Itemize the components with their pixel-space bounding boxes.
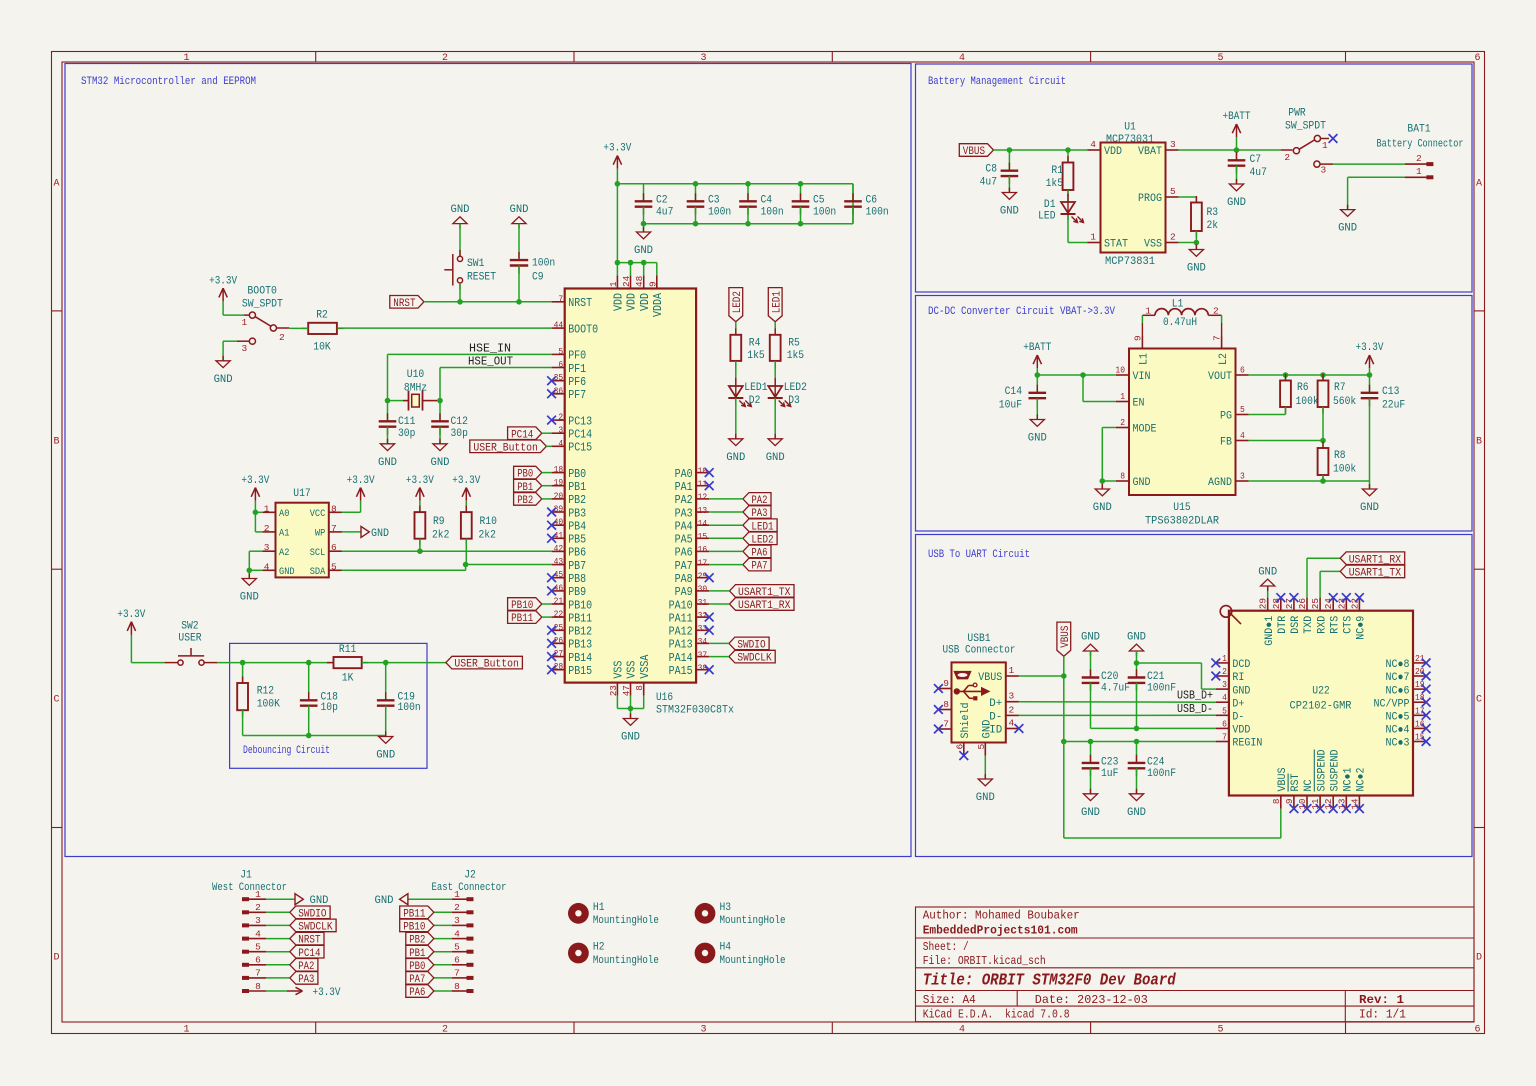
svg-text:29: 29 xyxy=(1258,598,1269,609)
svg-text:L2: L2 xyxy=(1218,353,1230,365)
power +3.3V (SW2) xyxy=(117,609,145,635)
svg-text:21: 21 xyxy=(554,596,564,607)
pin 5 D- of U22 xyxy=(1216,705,1245,723)
svg-text:PB12: PB12 xyxy=(568,626,592,639)
hierarchical label USART1_TX (USB section) xyxy=(1340,565,1405,579)
svg-text:PG: PG xyxy=(1220,411,1232,423)
wire VBUS net (USB section) xyxy=(1019,656,1281,838)
pin 14 PA4 of U16 xyxy=(675,518,710,534)
resistor R2 10K xyxy=(302,310,344,354)
svg-text:5: 5 xyxy=(1217,1025,1223,1036)
svg-text:BOOT0: BOOT0 xyxy=(247,286,277,298)
svg-text:PF6: PF6 xyxy=(568,376,586,389)
svg-text:100n: 100n xyxy=(813,207,836,219)
wire +BATT to VIN xyxy=(1035,368,1116,378)
svg-text:A2: A2 xyxy=(279,548,289,559)
svg-text:GND: GND xyxy=(1127,632,1146,644)
svg-text:4: 4 xyxy=(454,928,460,939)
wire EN branch xyxy=(1083,375,1116,402)
svg-text:5: 5 xyxy=(558,346,563,357)
pin 4 VDD of U1 xyxy=(1087,139,1122,158)
no-connect on U16 PA15 xyxy=(705,665,714,674)
svg-text:+3.3V: +3.3V xyxy=(406,475,434,487)
capacitor C21 100nF xyxy=(1128,660,1176,728)
svg-text:USB_D+: USB_D+ xyxy=(1177,690,1213,703)
svg-text:Battery Management Circuit: Battery Management Circuit xyxy=(928,76,1066,88)
svg-text:+3.3V: +3.3V xyxy=(603,143,631,155)
svg-text:C6: C6 xyxy=(866,195,878,207)
svg-text:23: 23 xyxy=(608,685,619,696)
svg-text:C7: C7 xyxy=(1250,154,1262,166)
svg-text:VDD: VDD xyxy=(639,293,652,311)
svg-text:8: 8 xyxy=(943,699,949,710)
pin 4 of J2 xyxy=(452,928,474,940)
svg-text:D2: D2 xyxy=(749,395,761,407)
power +3.3V (R10) xyxy=(452,475,480,501)
svg-text:31: 31 xyxy=(698,597,708,608)
title block date text xyxy=(1035,993,1148,1007)
pin 3 PC14 of U16 xyxy=(552,425,593,442)
resistor R10 2k2 xyxy=(461,501,497,545)
hierarchical label PC14 (J1) xyxy=(266,945,324,959)
hierarchical label PB2 xyxy=(514,493,552,507)
pin 35 PF6 of U16 xyxy=(552,372,587,389)
pin 6 Shield of USB1 (bottom) xyxy=(954,703,972,761)
svg-text:CTS: CTS xyxy=(1343,615,1355,633)
wire VDD net (USB) xyxy=(1091,726,1216,732)
svg-text:J1: J1 xyxy=(240,870,252,882)
resistor R12 100K xyxy=(237,663,280,717)
hierarchical label PA7 xyxy=(709,558,771,572)
svg-text:West Connector: West Connector xyxy=(212,882,287,894)
svg-text:PA7: PA7 xyxy=(675,560,693,573)
ground under U15 GND pin xyxy=(1093,484,1112,514)
svg-text:PB10: PB10 xyxy=(568,599,592,612)
pin 30 PA9 of U16 xyxy=(675,584,710,600)
svg-text:1: 1 xyxy=(1222,653,1227,664)
svg-text:5: 5 xyxy=(1240,404,1245,415)
title block rev text xyxy=(1359,993,1404,1007)
wire R4 to D2 xyxy=(735,361,737,386)
svg-text:44: 44 xyxy=(554,320,564,331)
svg-text:PWR: PWR xyxy=(1288,108,1306,120)
no-connect on U16 PB9 xyxy=(547,587,556,596)
svg-text:3: 3 xyxy=(1222,679,1227,690)
svg-text:MountingHole: MountingHole xyxy=(720,915,786,927)
svg-text:R11: R11 xyxy=(339,644,357,656)
section box Battery Management Circuit xyxy=(916,64,1473,292)
hierarchical label PA2 (J1) xyxy=(266,959,318,973)
pin 4 FB of U15 xyxy=(1220,430,1249,449)
svg-text:+3.3V: +3.3V xyxy=(117,609,145,621)
svg-text:NC●3: NC●3 xyxy=(1386,738,1410,750)
pin 43 PB7 of U16 xyxy=(552,556,587,573)
svg-text:PB1: PB1 xyxy=(568,481,586,494)
svg-text:PA15: PA15 xyxy=(669,665,693,678)
pin 5 PG of U15 xyxy=(1220,404,1249,423)
pin 5 GND of USB1 (bottom) xyxy=(976,719,994,755)
svg-text:GND: GND xyxy=(1081,632,1100,644)
wire REGIN net xyxy=(1064,739,1216,745)
pin 32 PA11 of U16 xyxy=(669,610,710,626)
pin 6 VDD of U22 xyxy=(1216,718,1251,736)
svg-text:VOUT: VOUT xyxy=(1208,371,1232,383)
svg-text:25: 25 xyxy=(1310,598,1321,609)
no-connect on U16 PA11 xyxy=(705,613,714,622)
no-connect on PWR pin 1 xyxy=(1329,134,1338,143)
title block sheet text xyxy=(923,940,969,954)
no-connect on U16 PF7 xyxy=(547,389,556,398)
hierarchical label USART1_RX (USB section) xyxy=(1340,552,1405,566)
wire SDA net xyxy=(342,539,552,571)
mcu U16 STM32F030C8Tx body xyxy=(565,289,735,717)
mounting hole H2 xyxy=(568,942,659,967)
ground under C19 xyxy=(376,732,395,762)
svg-text:0.47uH: 0.47uH xyxy=(1163,317,1197,329)
ground under USB1 xyxy=(976,774,995,804)
svg-text:20: 20 xyxy=(554,490,564,501)
ground under C12 xyxy=(431,439,450,469)
svg-text:PA3: PA3 xyxy=(298,974,314,986)
wire A2 GND to ground xyxy=(247,551,263,578)
svg-text:NC●2: NC●2 xyxy=(1356,768,1368,792)
wire A0 A1 to +3.3V xyxy=(253,501,263,532)
svg-text:BOOT0: BOOT0 xyxy=(568,323,598,336)
svg-text:Author: Mohamed Boubaker: Author: Mohamed Boubaker xyxy=(923,909,1080,923)
svg-text:STAT: STAT xyxy=(1104,239,1128,251)
title block title text xyxy=(923,972,1177,991)
wire D2 to ground xyxy=(735,398,737,439)
wire U22 pin29 to ground xyxy=(1267,586,1269,598)
ground under C7 xyxy=(1227,179,1246,209)
svg-text:100n: 100n xyxy=(866,207,889,219)
svg-text:C2: C2 xyxy=(656,195,668,207)
svg-text:TXD: TXD xyxy=(1303,615,1315,633)
svg-text:VDD: VDD xyxy=(1232,725,1250,737)
svg-text:B: B xyxy=(1476,437,1482,448)
svg-text:PB7: PB7 xyxy=(568,560,586,573)
pin 25 RXD of U22 (top) xyxy=(1310,598,1328,634)
svg-text:GND: GND xyxy=(1127,807,1146,819)
pin 6 SCL of U17 xyxy=(310,542,342,559)
capacitor C2 4u7 xyxy=(635,184,674,224)
power +3.3V arrow at J1 pin8 xyxy=(266,987,341,999)
pin 8 of J1 xyxy=(242,981,266,993)
pin 12 PA2 of U16 xyxy=(675,492,710,508)
svg-text:USB1: USB1 xyxy=(967,633,991,645)
svg-text:2: 2 xyxy=(558,412,563,423)
svg-text:100k: 100k xyxy=(1296,396,1320,408)
pin 4 ID of USB1 xyxy=(989,718,1019,737)
svg-text:GND: GND xyxy=(981,719,993,738)
svg-text:USB To UART Circuit: USB To UART Circuit xyxy=(928,549,1030,561)
wire PG to R6 xyxy=(1249,414,1286,416)
svg-text:560k: 560k xyxy=(1333,396,1357,408)
svg-text:VSS: VSS xyxy=(613,661,626,679)
mounting hole H1 xyxy=(568,902,659,927)
pin 20 PB2 of U16 xyxy=(552,490,587,507)
svg-text:D3: D3 xyxy=(788,395,800,407)
svg-text:12: 12 xyxy=(698,492,708,503)
capacitor C3 100n xyxy=(687,184,732,224)
svg-text:GND: GND xyxy=(371,528,389,540)
svg-text:100n: 100n xyxy=(398,702,421,714)
svg-text:A: A xyxy=(53,179,59,190)
ground above U22 pin 29 xyxy=(1258,567,1277,592)
wire HSE_OUT net xyxy=(440,368,552,401)
wire VSS to ground xyxy=(1179,231,1200,250)
svg-text:6: 6 xyxy=(1474,53,1480,64)
power +BATT (battery section) xyxy=(1223,111,1251,137)
svg-text:19: 19 xyxy=(554,477,564,488)
ground under BAT1 xyxy=(1338,205,1357,235)
svg-text:LED: LED xyxy=(1038,211,1056,223)
svg-text:U10: U10 xyxy=(407,369,424,381)
pin 5 of J2 xyxy=(452,942,474,954)
svg-text:Date: 2023-12-03: Date: 2023-12-03 xyxy=(1035,993,1148,1007)
svg-text:3: 3 xyxy=(1321,165,1327,176)
hierarchical label PB11 (J2) xyxy=(400,906,452,920)
svg-text:C13: C13 xyxy=(1382,386,1399,398)
svg-text:4: 4 xyxy=(558,438,563,449)
svg-text:DCD: DCD xyxy=(1232,659,1250,671)
pin 19 PB1 of U16 xyxy=(552,477,587,494)
svg-text:MCP73031: MCP73031 xyxy=(1106,134,1154,146)
hierarchical label VBUS (battery section) xyxy=(959,144,993,158)
svg-text:GND: GND xyxy=(766,452,785,464)
svg-text:GND: GND xyxy=(375,895,394,907)
pin 11 SUSPEND of U22 (bottom) xyxy=(1310,749,1328,813)
title block xyxy=(916,907,1475,1022)
svg-text:USB Connector: USB Connector xyxy=(943,645,1016,657)
ground under C23 xyxy=(1081,789,1100,819)
svg-text:5: 5 xyxy=(331,561,337,572)
svg-text:GND: GND xyxy=(510,204,529,216)
svg-text:22uF: 22uF xyxy=(1382,400,1405,412)
hierarchical label NRST (J1) xyxy=(266,932,324,946)
svg-text:C24: C24 xyxy=(1147,756,1165,768)
pin 3 GND of U22 xyxy=(1216,679,1251,697)
svg-text:C12: C12 xyxy=(451,416,468,428)
pin 34 PA13 of U16 xyxy=(669,636,710,652)
svg-text:USER_Button: USER_Button xyxy=(473,442,538,454)
svg-text:+3.3V: +3.3V xyxy=(313,987,341,999)
ground above C9 xyxy=(510,204,529,258)
wire RXD to USART1_TX xyxy=(1320,571,1340,597)
svg-text:PB5: PB5 xyxy=(568,534,586,547)
capacitor C24 100nF xyxy=(1128,742,1176,794)
pin 13 NC●1 of U22 (bottom) xyxy=(1336,767,1354,813)
svg-text:PF1: PF1 xyxy=(568,363,586,376)
svg-text:PB11: PB11 xyxy=(568,612,592,625)
capacitor C4 100n xyxy=(739,184,784,224)
wire VBUS to U1 VDD xyxy=(994,147,1088,153)
svg-text:VDD: VDD xyxy=(626,293,639,311)
svg-text:5: 5 xyxy=(976,744,987,750)
pin 28 PB15 of U16 xyxy=(552,661,593,678)
svg-text:+3.3V: +3.3V xyxy=(347,475,375,487)
title block kicad text xyxy=(923,1008,1070,1022)
svg-text:PA9: PA9 xyxy=(675,586,693,599)
svg-text:20: 20 xyxy=(1415,666,1425,677)
capacitor C8 4u7 xyxy=(980,150,1019,193)
svg-text:37: 37 xyxy=(698,649,708,660)
svg-text:1K: 1K xyxy=(342,672,354,684)
svg-text:D+: D+ xyxy=(1232,698,1244,710)
svg-text:LED1: LED1 xyxy=(744,382,768,394)
svg-text:24: 24 xyxy=(621,276,632,287)
pin 2 of J2 xyxy=(452,902,474,914)
pin 10 PA0 of U16 xyxy=(675,465,710,481)
svg-text:3: 3 xyxy=(264,542,270,553)
wire PROG to R3 xyxy=(1179,197,1197,203)
power +3.3V (R9) xyxy=(406,475,434,501)
svg-text:C: C xyxy=(53,695,59,706)
svg-text:Shield: Shield xyxy=(960,703,972,739)
svg-text:H3: H3 xyxy=(720,902,732,914)
pin 2 PC13 of U16 xyxy=(552,412,593,429)
hierarchical label PB1 (J2) xyxy=(406,945,452,959)
no-connect on U16 PA12 xyxy=(705,626,714,635)
svg-text:GND: GND xyxy=(1093,502,1112,514)
svg-text:6: 6 xyxy=(331,542,337,553)
svg-text:HSE_OUT: HSE_OUT xyxy=(468,356,513,369)
svg-text:A: A xyxy=(1476,179,1482,190)
pin 10 NC of U22 (bottom) xyxy=(1297,779,1315,813)
svg-text:2: 2 xyxy=(454,902,460,913)
usb connector USB1 body xyxy=(943,633,1016,743)
svg-text:4: 4 xyxy=(1240,430,1245,441)
local label HSE_IN xyxy=(469,343,511,356)
hierarchical label SWDIO xyxy=(709,637,769,651)
svg-text:4: 4 xyxy=(1090,139,1096,150)
svg-text:GND: GND xyxy=(1360,502,1379,514)
pin 33 PA12 of U16 xyxy=(669,623,710,639)
hierarchical label PC14 xyxy=(508,427,552,441)
svg-text:VBUS: VBUS xyxy=(978,672,1002,684)
svg-text:5: 5 xyxy=(1217,53,1223,64)
svg-text:2k2: 2k2 xyxy=(479,529,496,541)
usb trident icon xyxy=(954,683,990,700)
svg-text:10uF: 10uF xyxy=(999,400,1022,412)
resistor R3 2k xyxy=(1191,196,1218,238)
svg-text:GND: GND xyxy=(634,245,653,257)
pin 14 NC●2 of U22 (bottom) xyxy=(1349,768,1367,814)
svg-text:+BATT: +BATT xyxy=(1023,342,1051,354)
svg-text:7: 7 xyxy=(1222,732,1227,743)
wire FB node xyxy=(1249,438,1326,444)
svg-text:R9: R9 xyxy=(433,516,445,528)
ground under U1 VSS xyxy=(1187,245,1206,275)
ground under U17 xyxy=(240,574,259,604)
resistor R5 1k5 xyxy=(770,328,804,367)
svg-text:1uF: 1uF xyxy=(1101,768,1118,780)
svg-text:19: 19 xyxy=(1415,679,1425,690)
pin 1 DCD of U22 xyxy=(1211,653,1250,671)
svg-text:4: 4 xyxy=(1009,718,1015,729)
svg-text:3: 3 xyxy=(1170,139,1176,150)
hierarchical label LED2 (vertical) xyxy=(729,288,744,322)
pin 9 VDDA of U16 (top) xyxy=(647,275,665,317)
svg-text:AGND: AGND xyxy=(1208,477,1232,489)
svg-text:2: 2 xyxy=(1284,152,1290,163)
pin 27 DSR of U22 (top) xyxy=(1284,593,1302,634)
svg-text:5: 5 xyxy=(454,942,460,953)
pin 5 of J1 xyxy=(242,942,266,954)
resistor R6 100k xyxy=(1280,374,1319,415)
svg-text:8: 8 xyxy=(634,685,645,691)
pin 2 VSS of U1 xyxy=(1144,232,1179,251)
svg-text:GND: GND xyxy=(378,457,397,469)
pin 1 EN of U15 xyxy=(1116,391,1145,410)
switch SW1-BOOT0 SW_SPDT xyxy=(237,286,289,355)
svg-text:1: 1 xyxy=(183,53,189,64)
pin 8 VBUS of U22 (bottom) xyxy=(1271,767,1289,808)
svg-text:CP2102-GMR: CP2102-GMR xyxy=(1290,701,1352,713)
hierarchical label PB10 (J2) xyxy=(400,919,452,933)
svg-text:VCC: VCC xyxy=(310,509,326,520)
pin 3 of J1 xyxy=(242,915,266,927)
svg-text:MCP73831: MCP73831 xyxy=(1105,256,1155,268)
svg-text:GND●1: GND●1 xyxy=(1264,615,1276,645)
svg-text:2: 2 xyxy=(442,1025,448,1036)
svg-text:EmbeddedProjects101.com: EmbeddedProjects101.com xyxy=(923,924,1078,938)
ground above C21 xyxy=(1127,632,1146,664)
svg-text:LED1: LED1 xyxy=(771,291,783,314)
wire debounce ground rail xyxy=(243,710,386,738)
svg-text:8MHz: 8MHz xyxy=(404,383,427,395)
ground under U16 xyxy=(621,709,640,744)
wire D1 to U1 STAT xyxy=(1068,215,1087,243)
svg-text:File: ORBIT.kicad_sch: File: ORBIT.kicad_sch xyxy=(923,954,1046,968)
svg-text:KiCad E.D.A. kicad 7.0.8: KiCad E.D.A. kicad 7.0.8 xyxy=(923,1008,1070,1022)
no-connect on USB1 ID xyxy=(1015,724,1024,733)
svg-text:47: 47 xyxy=(621,685,632,696)
svg-text:NC●1: NC●1 xyxy=(1343,767,1355,791)
svg-text:2k: 2k xyxy=(1207,220,1219,232)
svg-text:3: 3 xyxy=(558,425,563,436)
svg-text:17: 17 xyxy=(1415,705,1425,716)
svg-text:C: C xyxy=(1476,695,1482,706)
pin 1 STAT of U1 xyxy=(1087,232,1128,251)
pin 22 PB11 of U16 xyxy=(552,609,593,626)
title block file text xyxy=(923,954,1046,968)
wire GND rail under C2-C6 xyxy=(641,181,853,227)
svg-text:USER_Button: USER_Button xyxy=(454,659,519,671)
svg-text:1k5: 1k5 xyxy=(1046,178,1063,190)
svg-text:2: 2 xyxy=(1120,417,1125,428)
pin 2 MODE of U15 xyxy=(1116,417,1157,436)
svg-text:+3.3V: +3.3V xyxy=(241,475,269,487)
pin 8 of J2 xyxy=(452,981,474,993)
svg-text:1: 1 xyxy=(1090,232,1096,243)
svg-text:2: 2 xyxy=(279,332,285,343)
pins 9 8 7 of USB1 (left, no-connect) xyxy=(934,678,952,733)
no-connect on U16 PB4 xyxy=(547,521,556,530)
svg-text:VBUS: VBUS xyxy=(963,146,986,158)
svg-text:R2: R2 xyxy=(316,310,328,322)
pin 45 PB8 of U16 xyxy=(552,569,587,586)
ground under C13 xyxy=(1360,484,1379,514)
wire MODE to GND pin xyxy=(1100,428,1116,490)
svg-text:NC: NC xyxy=(1303,779,1315,791)
wire LED1 to R5 xyxy=(774,322,776,335)
pin 48 VDD of U16 (top) xyxy=(634,275,652,311)
pin 27 PB14 of U16 xyxy=(552,648,593,665)
pin 6 PF1 of U16 xyxy=(552,359,587,376)
pin 12 SUSPEND of U22 (bottom) xyxy=(1323,749,1341,813)
svg-text:U17: U17 xyxy=(293,488,310,500)
